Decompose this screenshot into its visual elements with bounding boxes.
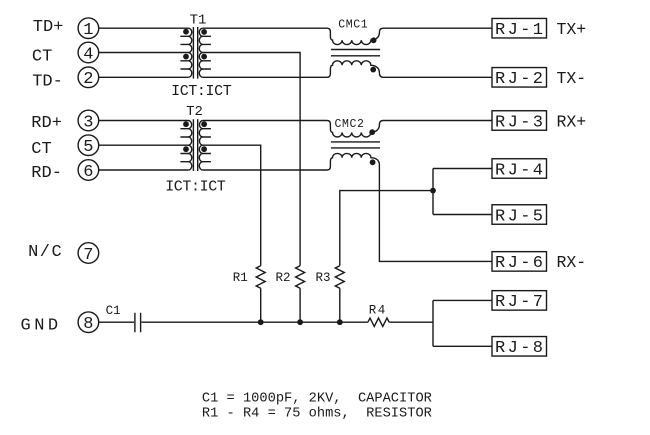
svg-text:2: 2 bbox=[83, 70, 93, 89]
transformer T1 secondary winding (right) bbox=[199, 28, 211, 77]
RJ-7 box bbox=[492, 291, 547, 313]
svg-text:ICT:ICT: ICT:ICT bbox=[171, 83, 232, 100]
svg-text:7: 7 bbox=[83, 246, 93, 265]
svg-text:TD+: TD+ bbox=[33, 18, 64, 37]
RJ-2 box bbox=[492, 68, 547, 90]
svg-text:TX+: TX+ bbox=[557, 20, 587, 39]
svg-text:CT: CT bbox=[32, 47, 52, 66]
svg-text:RJ-5: RJ-5 bbox=[495, 207, 545, 226]
svg-text:R2: R2 bbox=[276, 271, 291, 285]
resistor R1 bbox=[256, 266, 265, 289]
wire R3 top to RJ-4/RJ-5 junction bbox=[340, 191, 433, 266]
node junction dot R2/GND bbox=[297, 319, 303, 325]
transformer T1 primary winding (left) + wires from pins 1,4,2 bbox=[99, 28, 192, 77]
choke CMC1 bottom polarity dot bbox=[370, 67, 376, 73]
RJ-1 box bbox=[492, 18, 547, 40]
svg-text:RJ-7: RJ-7 bbox=[495, 293, 545, 312]
choke CMC2 top polarity dot bbox=[369, 129, 375, 135]
svg-text:TD-: TD- bbox=[32, 72, 63, 91]
transformer T1 core bbox=[193, 27, 197, 79]
wire R4 to RJ-7/RJ-8 vertical bbox=[389, 321, 433, 323]
RJ-5 box bbox=[492, 205, 547, 227]
svg-text:GND: GND bbox=[21, 316, 62, 335]
resistor R3 bbox=[335, 266, 344, 289]
RJ-6 box bbox=[492, 252, 547, 274]
RJ-4 box bbox=[492, 159, 547, 181]
svg-text:RJ-6: RJ-6 bbox=[495, 254, 545, 273]
svg-text:RD+: RD+ bbox=[31, 114, 62, 133]
svg-text:RJ-8: RJ-8 bbox=[495, 339, 545, 358]
svg-text:T2: T2 bbox=[186, 104, 203, 120]
wire R3 bottom lead bbox=[339, 288, 341, 322]
resistor R2 bbox=[296, 266, 305, 289]
svg-text:1: 1 bbox=[83, 21, 93, 40]
svg-text:RX-: RX- bbox=[557, 253, 587, 272]
svg-text:C1: C1 bbox=[106, 304, 121, 318]
resistor R4 bbox=[368, 318, 389, 326]
RJ-3 box bbox=[492, 111, 547, 133]
capacitor C1 bbox=[135, 313, 141, 332]
choke CMC1 top winding + wire T1 to RJ-1 bbox=[203, 28, 492, 44]
wire pin 8 to C1 bbox=[99, 321, 134, 323]
wire T2 center tap to R1 bbox=[203, 145, 261, 266]
svg-text:3: 3 bbox=[83, 113, 93, 132]
svg-text:R4: R4 bbox=[369, 304, 387, 318]
transformer T2 core bbox=[193, 119, 197, 171]
wire RJ-7 branch bbox=[433, 299, 492, 301]
wire T1 center tap to R2 bbox=[203, 53, 300, 266]
svg-text:RJ-3: RJ-3 bbox=[495, 113, 545, 132]
wire R1 bottom lead bbox=[260, 288, 262, 322]
choke CMC1 top polarity dot bbox=[371, 37, 377, 43]
svg-text:5: 5 bbox=[83, 138, 93, 157]
wire R2 bottom lead bbox=[299, 288, 301, 322]
svg-text:CT: CT bbox=[31, 140, 51, 159]
transformer T2 primary winding (left) + wires from pins 3,5,6 bbox=[99, 121, 192, 171]
transformer T2 secondary winding (right) bbox=[199, 121, 211, 171]
wire RJ-7/RJ-8 vertical bbox=[432, 300, 434, 346]
pin 5 bbox=[78, 135, 99, 157]
wire GND rail C1 to R4 bbox=[142, 321, 368, 323]
svg-text:C1 = 1000pF, 2KV, CAPACITOR: C1 = 1000pF, 2KV, CAPACITOR bbox=[202, 392, 432, 407]
svg-text:6: 6 bbox=[83, 163, 93, 182]
wire RJ-5 branch bbox=[433, 214, 492, 216]
svg-text:RJ-1: RJ-1 bbox=[495, 21, 545, 40]
pin 4 bbox=[78, 42, 99, 64]
choke CMC2 core bbox=[331, 142, 380, 148]
svg-text:R3: R3 bbox=[316, 271, 331, 285]
svg-text:TX-: TX- bbox=[557, 69, 587, 88]
pin 3 bbox=[78, 110, 99, 132]
pin 1 bbox=[78, 18, 99, 40]
svg-text:N/C: N/C bbox=[28, 243, 63, 262]
choke CMC1 bottom winding + wire T1 to RJ-2 bbox=[203, 61, 492, 78]
svg-text:CMC1: CMC1 bbox=[338, 18, 368, 31]
node junction dot R3/GND bbox=[337, 319, 343, 325]
choke CMC2 bottom winding + wire T2 down to RJ-6 bbox=[203, 153, 492, 261]
RJ-8 box bbox=[492, 337, 547, 359]
choke CMC2 top winding + wire T2 to RJ-3 bbox=[203, 121, 492, 137]
svg-text:RJ-2: RJ-2 bbox=[495, 70, 545, 89]
svg-text:T1: T1 bbox=[190, 13, 207, 29]
node junction dot R1/GND bbox=[258, 319, 264, 325]
svg-text:R1: R1 bbox=[233, 271, 248, 285]
svg-text:8: 8 bbox=[83, 315, 93, 334]
pin 6 bbox=[78, 160, 99, 182]
wire RJ-4/RJ-5 vertical bbox=[432, 169, 434, 215]
pin 8 bbox=[78, 312, 99, 334]
node junction dot RJ-4/5 bbox=[430, 188, 436, 194]
svg-text:R1 - R4 = 75 ohms, RESISTOR: R1 - R4 = 75 ohms, RESISTOR bbox=[202, 407, 432, 422]
transformer T1 secondary polarity dots bbox=[201, 29, 207, 35]
svg-text:RX+: RX+ bbox=[557, 112, 587, 131]
svg-text:4: 4 bbox=[83, 45, 93, 64]
pin 2 bbox=[78, 67, 99, 89]
svg-text:RD-: RD- bbox=[31, 164, 62, 183]
transformer T2 secondary polarity dots bbox=[201, 121, 207, 127]
choke CMC2 bottom polarity dot bbox=[370, 159, 376, 165]
wire RJ-8 branch bbox=[433, 345, 492, 347]
svg-text:ICT:ICT: ICT:ICT bbox=[165, 178, 226, 195]
transformer T1 primary polarity dots bbox=[183, 29, 189, 35]
svg-text:CMC2: CMC2 bbox=[335, 118, 365, 131]
svg-text:RJ-4: RJ-4 bbox=[495, 161, 545, 180]
transformer T2 primary polarity dots bbox=[183, 121, 189, 127]
wire RJ-4 branch bbox=[433, 168, 492, 170]
choke CMC1 core bbox=[331, 50, 380, 56]
pin 7 bbox=[78, 243, 99, 265]
